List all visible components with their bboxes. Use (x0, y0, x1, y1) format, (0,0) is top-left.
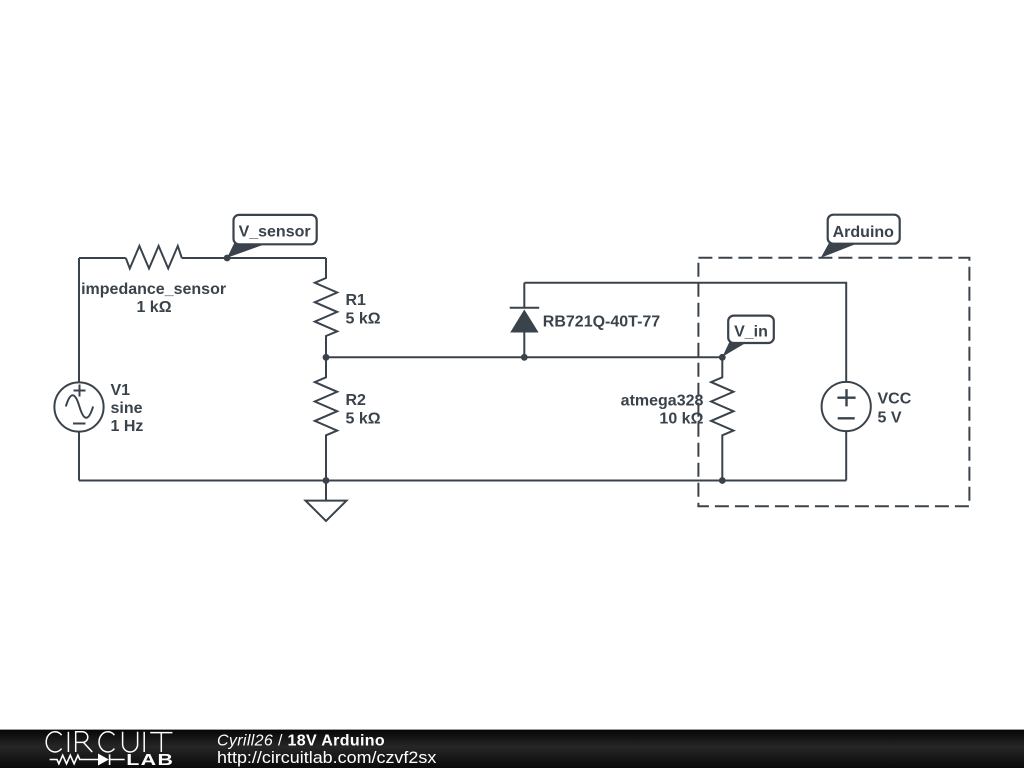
footer bar (0, 730, 1024, 768)
svg-text:VCC: VCC (878, 391, 912, 408)
svg-text:1 Hz: 1 Hz (111, 418, 144, 435)
source VCC circle (822, 382, 871, 431)
node V_in junction (719, 354, 726, 361)
wire V1 bottom lead (78, 432, 80, 481)
flag box V_sensor (234, 215, 317, 244)
diode D1 top lead (523, 283, 525, 308)
svg-text:sine: sine (111, 400, 143, 417)
svg-text:impedance_sensor: impedance_sensor (81, 281, 226, 298)
flag pointer Arduino (821, 243, 858, 258)
arduino dashed box (698, 258, 969, 507)
diode D1 triangle (510, 310, 538, 333)
svg-text:5 V: 5 V (878, 410, 902, 427)
flag box Arduino (828, 215, 900, 244)
svg-text:V1: V1 (111, 382, 131, 399)
svg-text:Arduino: Arduino (833, 224, 895, 241)
wire bottom rail (79, 480, 846, 482)
node R1-R2 junction (323, 354, 330, 361)
node atmega bottom junction (719, 477, 726, 484)
flag pointer V_in (722, 342, 747, 357)
source VCC plus (837, 389, 855, 406)
ground triangle (306, 501, 347, 521)
svg-text:1 kΩ: 1 kΩ (136, 299, 171, 316)
svg-text:R2: R2 (346, 392, 367, 409)
logo wordmark CIRCUIT (46, 732, 172, 752)
svg-text:http://circuitlab.com/czvf2sx: http://circuitlab.com/czvf2sx (217, 748, 437, 767)
logo resistor-diode glyph (50, 754, 125, 765)
resistor impedance_sensor zigzag (126, 246, 182, 269)
source V1 minus (73, 423, 86, 425)
wire top-left vertical from V1 to top rail (78, 258, 80, 382)
svg-text:RB721Q-40T-77: RB721Q-40T-77 (543, 313, 660, 330)
node diode junction (521, 354, 528, 361)
source V1 plus (74, 385, 86, 397)
source VCC minus (838, 417, 855, 419)
logo diode triangle (98, 754, 109, 766)
svg-text:V_sensor: V_sensor (239, 224, 311, 241)
resistor R2 (315, 357, 337, 480)
svg-text:R1: R1 (346, 292, 367, 309)
svg-text:atmega328: atmega328 (621, 392, 704, 409)
source V1 circle (54, 382, 103, 431)
wire VCC bottom lead (845, 431, 847, 481)
diode D1 bottom lead (523, 333, 525, 358)
diode D1 cathode bar (510, 307, 540, 309)
node V_sensor junction (224, 255, 231, 262)
svg-text:5 kΩ: 5 kΩ (346, 311, 381, 328)
svg-text:10 kΩ: 10 kΩ (659, 410, 703, 427)
svg-text:5 kΩ: 5 kΩ (346, 411, 381, 428)
svg-text:Cyrill26 / 18V Arduino: Cyrill26 / 18V Arduino (217, 733, 385, 750)
flag box V_in (728, 316, 774, 343)
wire middle rail (326, 356, 722, 358)
svg-text:LAB: LAB (126, 751, 174, 768)
svg-text:V_in: V_in (734, 324, 768, 341)
wire top rail to V_sensor node and R1 corner (182, 257, 326, 259)
flag pointer V_sensor (227, 244, 267, 258)
source V1 sine (66, 395, 93, 418)
wire top rail left segment with resistor lead (79, 257, 126, 259)
wire top-right rail (524, 283, 846, 382)
resistor R1 (315, 258, 337, 357)
node ground junction (323, 477, 330, 484)
ground stem (325, 481, 327, 501)
resistor atmega328 (711, 357, 733, 480)
